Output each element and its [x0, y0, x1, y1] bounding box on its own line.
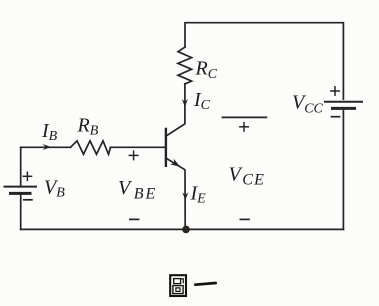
battery VCC minus sign [331, 116, 341, 118]
resistor RC [178, 47, 192, 84]
node: emitter / bottom-rail junction [182, 226, 190, 234]
VCE overline [222, 116, 268, 118]
wire: left vertical from base wire to VB battery [20, 147, 22, 186]
battery VB minus sign [23, 199, 33, 201]
svg-text:RC: RC [195, 58, 218, 82]
battery VCC plus sign [330, 86, 340, 96]
svg-text:VCE: VCE [229, 163, 266, 188]
wire: left vertical from VB battery to bottom rail [20, 194, 22, 230]
VCE minus sign [240, 218, 250, 220]
svg-text:VBE: VBE [118, 177, 157, 203]
wire: right vertical from VCC battery to bottom rail [342, 111, 344, 230]
caption: character 一 (one) [195, 283, 215, 285]
wire: emitter diagonal and vertical to ground node [166, 158, 185, 229]
svg-text:RB: RB [77, 114, 99, 138]
svg-text:IC: IC [193, 89, 211, 113]
svg-text:IE: IE [190, 183, 207, 207]
VBE minus sign [129, 218, 139, 220]
svg-text:VB: VB [44, 177, 65, 201]
resistor RB [71, 141, 111, 155]
wire: collector drop from RC to transistor [166, 84, 185, 136]
battery VB plus sign [23, 171, 33, 181]
current arrow IB [43, 144, 51, 150]
wire: base lead from VB through RB to transistor base [21, 146, 71, 148]
current arrow IC [182, 99, 188, 107]
VCE plus sign [239, 122, 249, 132]
wire: top rail from RC branch to VCC branch [185, 23, 343, 100]
current arrow IE [182, 192, 188, 200]
svg-text:IB: IB [41, 120, 58, 144]
wire: bottom rail [21, 228, 344, 230]
battery VB [4, 187, 38, 194]
caption: character 圖 (Figure) [170, 275, 186, 296]
transistor Q1 emitter arrowhead [170, 159, 180, 167]
battery VCC [324, 102, 363, 109]
svg-text:VCC: VCC [292, 91, 324, 116]
transistor Q1 [165, 128, 167, 167]
VBE plus sign [129, 150, 139, 160]
